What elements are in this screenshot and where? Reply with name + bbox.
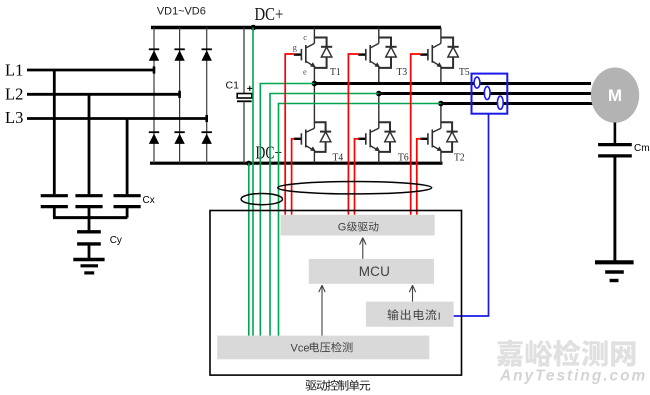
diode VD1 (top row) bbox=[149, 48, 159, 50]
label C1 plus sign bbox=[247, 87, 252, 89]
svg-text:VD1~VD6: VD1~VD6 bbox=[157, 6, 206, 18]
transistor T3 (IGBT) bbox=[378, 28, 380, 44]
svg-text:T5: T5 bbox=[459, 66, 470, 78]
label output current text bbox=[388, 309, 399, 320]
svg-text:M: M bbox=[608, 86, 622, 105]
wire phase 1 output bbox=[314, 82, 591, 85]
arrow MCU to G-driver bbox=[362, 239, 364, 259]
ground (motor) bbox=[595, 260, 634, 264]
capacitor Cy bbox=[88, 218, 91, 231]
svg-text:c: c bbox=[303, 32, 307, 42]
node DC+ junction dot bbox=[251, 25, 257, 31]
wire phase 2 Vce sense (green) bbox=[270, 94, 379, 337]
svg-text:DC+: DC+ bbox=[255, 4, 284, 24]
node L junction tick bbox=[178, 91, 181, 98]
label drive control unit caption bbox=[306, 380, 317, 390]
svg-text:e: e bbox=[303, 67, 307, 77]
node L junction tick bbox=[153, 66, 156, 73]
diode (freewheel of T5) bbox=[441, 38, 453, 48]
wire DC- bus bbox=[150, 162, 443, 165]
wire drop L1 to Cx bbox=[53, 70, 56, 194]
transistor T6 (IGBT) bbox=[378, 94, 380, 129]
wire rectifier leg 3 bbox=[206, 28, 208, 164]
wire phase 3 Vce sense (green) bbox=[279, 104, 441, 337]
node phase 2 junction bbox=[376, 91, 382, 97]
wire phase 1 Vce sense (green) bbox=[260, 84, 314, 337]
capacitor Cm bbox=[598, 143, 632, 146]
wire L3 bbox=[27, 117, 207, 120]
wire L2 bbox=[27, 93, 180, 96]
transistor T2 (IGBT) bbox=[440, 104, 442, 129]
wire phase 3 output bbox=[441, 102, 593, 105]
svg-text:T6: T6 bbox=[398, 152, 409, 164]
capacitor C1 bbox=[243, 28, 245, 94]
transistor T1 (IGBT) bbox=[313, 28, 315, 44]
block Vce detection bbox=[217, 336, 429, 360]
wire current signal (blue) bbox=[454, 114, 489, 316]
svg-text:I: I bbox=[438, 310, 441, 322]
block output current bbox=[366, 302, 454, 327]
capacitor Cx1 bbox=[41, 194, 68, 197]
svg-text:Vce: Vce bbox=[291, 342, 310, 354]
diode (freewheel of T1) bbox=[314, 38, 326, 48]
svg-text:T4: T4 bbox=[333, 152, 344, 164]
diode VD5 (bottom row) bbox=[174, 131, 184, 133]
wire motor to Cm bbox=[614, 123, 617, 144]
arrow Vce detection to MCU bbox=[321, 287, 323, 336]
ferrite ring (gate wires) bbox=[278, 182, 432, 194]
watermark Chinese bbox=[497, 340, 523, 367]
node phase 1 junction bbox=[312, 81, 318, 87]
node phase 3 junction bbox=[438, 101, 444, 107]
diode VD4 (bottom row) bbox=[149, 131, 159, 133]
svg-text:L3: L3 bbox=[5, 108, 23, 127]
drive control unit box bbox=[210, 211, 462, 376]
wire gate drive T2 (red) bbox=[417, 139, 421, 215]
wire L1 bbox=[27, 69, 154, 72]
diode (freewheel of T6) bbox=[379, 122, 390, 132]
diode VD6 (bottom row) bbox=[202, 131, 212, 133]
diode (freewheel of T2) bbox=[441, 122, 452, 132]
motor M bbox=[591, 68, 639, 123]
transistor T4 (IGBT) bbox=[313, 84, 315, 129]
current transformer ring phase 1 bbox=[474, 77, 480, 88]
node L junction tick bbox=[205, 115, 208, 122]
ground (below Cy) bbox=[73, 258, 104, 261]
diode VD3 (top row) bbox=[202, 48, 212, 50]
wire gate drive T6 (red) bbox=[355, 139, 359, 215]
diode (freewheel of T4) bbox=[314, 122, 325, 132]
wire Cm to ground bbox=[613, 156, 616, 261]
svg-text:C1: C1 bbox=[226, 80, 240, 92]
wire rectifier leg 1 bbox=[153, 28, 155, 164]
current transformer ring phase 3 bbox=[497, 96, 503, 109]
block G-driver bbox=[281, 215, 435, 236]
current transformer ring phase 2 bbox=[484, 86, 490, 99]
svg-text:AnyTesting.com: AnyTesting.com bbox=[499, 368, 647, 385]
wire DC+ voltage sense (green) bbox=[252, 28, 254, 337]
wire rectifier leg 2 bbox=[179, 28, 181, 164]
svg-text:G: G bbox=[338, 222, 347, 234]
node DC- junction dot bbox=[246, 161, 251, 166]
wire gate drive T3 (red) bbox=[348, 54, 358, 215]
wire gate drive T1 (red) bbox=[285, 54, 294, 215]
transistor T5 (IGBT) bbox=[440, 28, 442, 44]
svg-text:T3: T3 bbox=[397, 66, 408, 78]
wire Cx common bus bbox=[53, 216, 127, 219]
svg-text:L1: L1 bbox=[5, 61, 23, 80]
capacitor Cx2 bbox=[75, 194, 102, 197]
wire gate drive T5 (red) bbox=[411, 54, 421, 215]
svg-text:L2: L2 bbox=[5, 85, 23, 104]
current sensor box bbox=[472, 74, 508, 114]
capacitor Cx3 bbox=[114, 194, 141, 197]
svg-text:T2: T2 bbox=[454, 152, 465, 164]
block MCU bbox=[309, 259, 434, 284]
wire gate drive T4 (red) bbox=[292, 139, 295, 215]
wire DC+ bus bbox=[151, 26, 441, 29]
wire drop L2 to Cx bbox=[88, 94, 91, 194]
diode (freewheel of T3) bbox=[379, 38, 391, 48]
ferrite ring (sense wires) bbox=[241, 194, 282, 205]
wire phase 2 output bbox=[379, 92, 592, 95]
svg-text:Cm: Cm bbox=[634, 143, 650, 154]
diode VD2 (top row) bbox=[174, 48, 184, 50]
arrow output current to MCU bbox=[412, 287, 414, 302]
svg-text:Cy: Cy bbox=[110, 235, 122, 246]
svg-text:T1: T1 bbox=[330, 66, 341, 78]
svg-text:g: g bbox=[293, 42, 298, 52]
svg-text:MCU: MCU bbox=[359, 264, 390, 279]
svg-text:Cx: Cx bbox=[143, 195, 155, 206]
wire DC- voltage sense (green) bbox=[248, 163, 250, 336]
wire drop L3 to Cx bbox=[126, 119, 129, 195]
